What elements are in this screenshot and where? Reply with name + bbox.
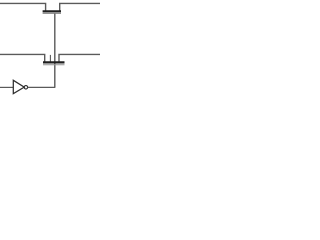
wire: gate lead of Q1 down to inverter output net [54, 14, 56, 88]
inverter U1 triangle [13, 80, 24, 93]
wire: top-left supply rail with step down to Q1 channel [0, 3, 46, 11]
wire: Q2 second left leg [49, 55, 51, 63]
wire: inverter input [0, 86, 13, 88]
wire: middle-right rail with leg onto Q2 channel [59, 54, 100, 62]
wire: middle-left rail with leg onto Q2 channel [0, 54, 45, 62]
background [0, 0, 100, 100]
transistor Q2 gate bar [43, 64, 65, 66]
inverter U1 output bubble [24, 86, 28, 90]
wire: inverter output to gate net [28, 86, 56, 88]
transistor Q1 channel bar [43, 10, 61, 12]
wire: top-right supply rail with step down to Q1 channel [60, 3, 100, 11]
transistor Q1 gate bar [43, 13, 61, 15]
transistor Q2 channel bar [43, 61, 65, 63]
